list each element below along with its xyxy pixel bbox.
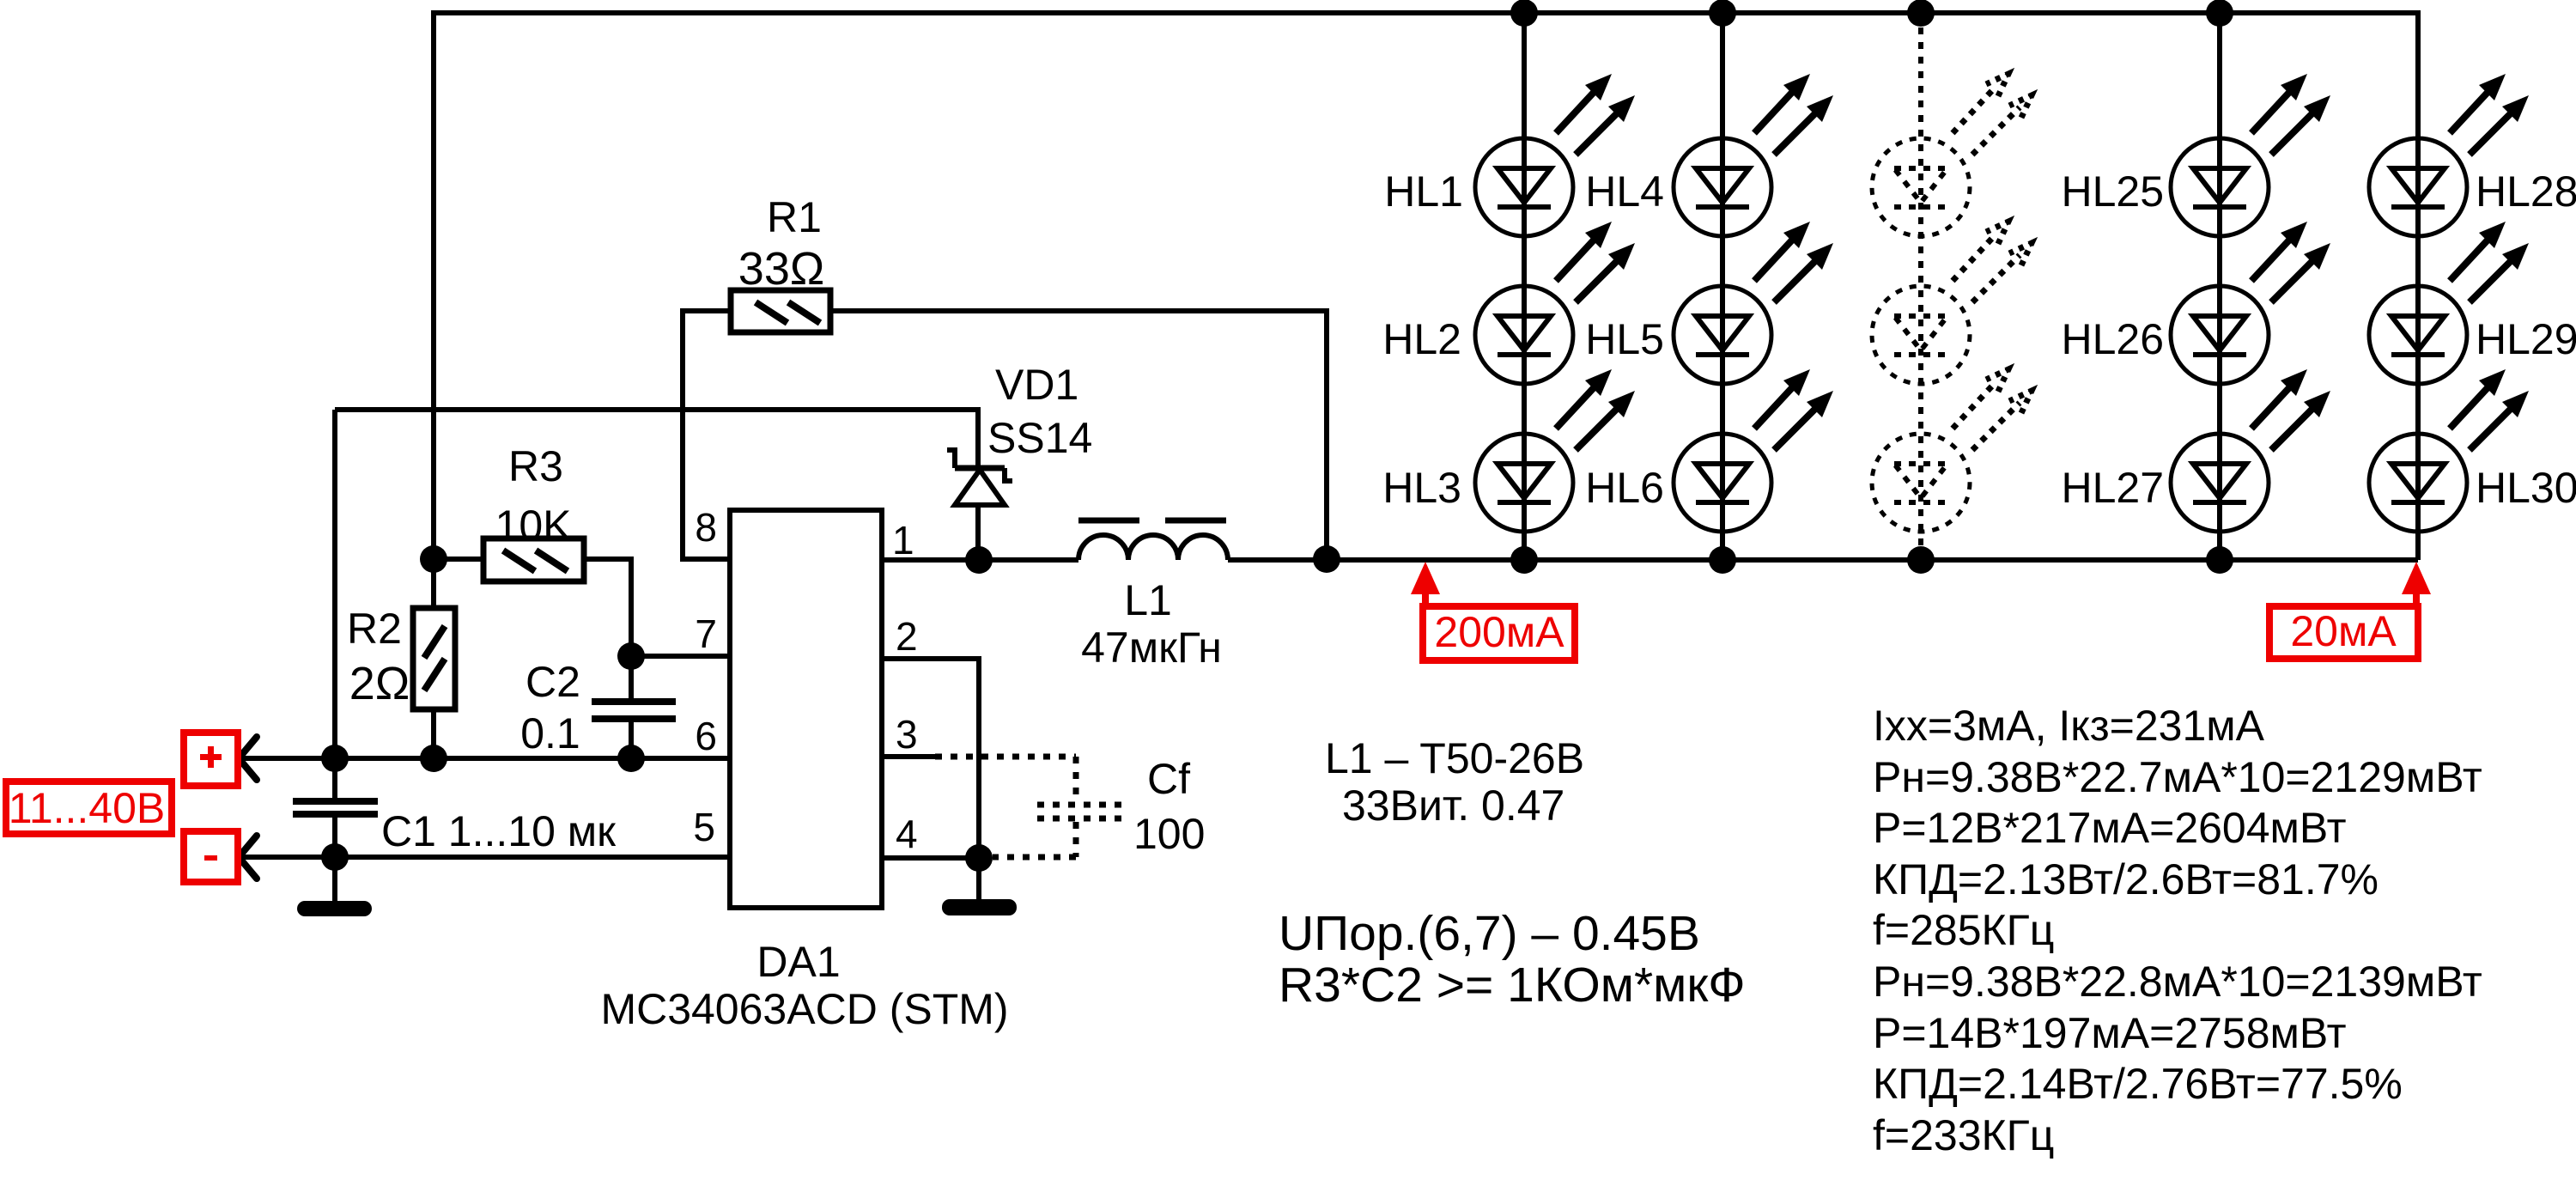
node minus/C1 junction	[321, 843, 349, 871]
resistor R3 10K	[483, 538, 584, 581]
svg-text:R2: R2	[347, 605, 402, 653]
wire pin 3 lead	[882, 754, 935, 759]
wire VD1 cathode feed	[335, 410, 978, 468]
resistor R1 33ohm	[731, 290, 830, 332]
node R1/output junction	[1313, 545, 1340, 573]
wire C1 bottom to ground	[332, 817, 337, 903]
svg-text:f=233КГц: f=233КГц	[1873, 1111, 2054, 1159]
svg-text:VD1: VD1	[995, 361, 1078, 409]
LED dashed at x=2237 y=562	[1872, 369, 2032, 532]
node bottom bus col3	[1907, 546, 1935, 574]
wire top supply bus	[434, 13, 2418, 560]
node top bus col3	[1907, 0, 1935, 27]
svg-text:HL4: HL4	[1585, 167, 1664, 216]
ground (input)	[297, 901, 372, 916]
svg-text:R3*C2 >= 1КОм*мкФ: R3*C2 >= 1КОм*мкФ	[1279, 958, 1746, 1013]
svg-text:L1 – T50-26В: L1 – T50-26В	[1325, 734, 1584, 782]
node R3/R2 junction	[420, 545, 447, 573]
red box 20mA	[2269, 606, 2418, 659]
LED HL30	[2369, 369, 2529, 532]
node top bus col4	[2206, 0, 2233, 27]
inductor L1 47uH	[1078, 520, 1228, 560]
ground (IC)	[942, 899, 1017, 915]
svg-text:L1: L1	[1124, 576, 1172, 624]
svg-text:HL28: HL28	[2476, 167, 2576, 216]
svg-text:2Ω: 2Ω	[349, 658, 410, 709]
svg-text:Ixx=3мА, Iкз=231мА: Ixx=3мА, Iкз=231мА	[1873, 702, 2265, 750]
red box minus terminal	[184, 831, 238, 882]
svg-text:33Вит. 0.47: 33Вит. 0.47	[1342, 782, 1564, 830]
LED HL3	[1475, 369, 1635, 532]
svg-text:100: 100	[1133, 810, 1205, 858]
minus input arrow	[239, 836, 257, 879]
svg-text:HL27: HL27	[2061, 464, 2164, 512]
wire R1 right to output node	[830, 311, 1327, 559]
diode VD1 SS14 (schottky)	[947, 450, 1012, 505]
LED HL1	[1475, 74, 1635, 236]
svg-text:7: 7	[695, 611, 717, 656]
wire LED column 4	[2217, 13, 2222, 560]
wire plus input	[239, 756, 730, 761]
svg-text:MC34063ACD (STM): MC34063ACD (STM)	[600, 985, 1008, 1033]
LED HL28	[2369, 74, 2529, 236]
wire minus input	[239, 855, 730, 860]
LED dashed at x=2237 y=218	[1872, 74, 2032, 236]
wire LED column 3 (dashed)	[1918, 13, 1923, 560]
wire pin 4 lead	[882, 855, 979, 861]
red box 200mA	[1423, 606, 1575, 660]
svg-text:200мА: 200мА	[1434, 608, 1564, 656]
svg-text:Рн=9.38В*22.7мА*10=2129мВт: Рн=9.38В*22.7мА*10=2129мВт	[1873, 753, 2482, 801]
svg-text:КПД=2.14Вт/2.76Вт=77.5%: КПД=2.14Вт/2.76Вт=77.5%	[1873, 1060, 2403, 1108]
wire R2 branch	[431, 559, 436, 758]
svg-text:5: 5	[693, 805, 715, 849]
svg-text:Рн=9.38В*22.8мА*10=2139мВт: Рн=9.38В*22.8мА*10=2139мВт	[1873, 958, 2482, 1006]
svg-text:6: 6	[695, 714, 717, 758]
LED dashed at x=2237 y=390	[1872, 222, 2032, 384]
svg-text:SS14: SS14	[987, 414, 1092, 462]
LED HL6	[1674, 369, 1833, 532]
plus input arrow	[239, 737, 257, 780]
wire R3 right to pin 7	[584, 559, 730, 656]
LED HL26	[2171, 222, 2330, 384]
LED HL4	[1674, 74, 1833, 236]
svg-text:КПД=2.13Вт/2.6Вт=81.7%: КПД=2.13Вт/2.6Вт=81.7%	[1873, 855, 2379, 903]
wire R3 left lead	[434, 557, 483, 562]
capacitor C2	[592, 698, 676, 722]
node top bus col1	[1510, 0, 1538, 27]
svg-text:Р=12В*217мА=2604мВт: Р=12В*217мА=2604мВт	[1873, 804, 2347, 852]
wire pin 4 to ground	[976, 858, 981, 902]
node C2 bottom junction	[617, 745, 645, 772]
svg-text:HL30: HL30	[2476, 464, 2576, 512]
svg-text:4: 4	[896, 812, 918, 856]
LED HL29	[2369, 222, 2529, 384]
svg-text:0.1: 0.1	[520, 709, 580, 757]
svg-text:HL3: HL3	[1382, 464, 1461, 512]
node bottom bus col4	[2206, 546, 2233, 574]
svg-text:Cf: Cf	[1147, 755, 1190, 803]
LED HL2	[1475, 222, 1635, 384]
svg-text:R3: R3	[508, 442, 563, 490]
svg-text:HL25: HL25	[2061, 167, 2164, 216]
red current arrow 200mA	[1411, 562, 1440, 610]
red box 11...40V input voltage	[6, 782, 172, 834]
red box plus terminal	[184, 733, 238, 786]
wire VD1 anode lead	[975, 505, 981, 560]
svg-text:1: 1	[892, 518, 914, 563]
wire pin 8 lead	[683, 311, 731, 559]
svg-text:C1 1...10 мк: C1 1...10 мк	[381, 807, 617, 855]
svg-text:UПор.(6,7) – 0.45В: UПор.(6,7) – 0.45В	[1279, 906, 1700, 961]
svg-text:33Ω: 33Ω	[738, 243, 824, 295]
svg-text:11...40В: 11...40В	[9, 784, 166, 832]
node VD1 anode junction	[965, 546, 993, 574]
svg-text:R1: R1	[767, 193, 822, 241]
wire pin 2 to pin 4	[882, 659, 979, 858]
node Vin/C1 junction	[321, 745, 349, 772]
wire LED bottom bus	[1228, 557, 2418, 563]
svg-text:10K: 10K	[495, 502, 572, 550]
svg-text:3: 3	[896, 712, 918, 757]
svg-text:HL29: HL29	[2476, 315, 2576, 363]
node top bus col2	[1709, 0, 1736, 27]
svg-text:HL26: HL26	[2061, 315, 2164, 363]
capacitor Cf (dashed feed-forward)	[935, 757, 1122, 857]
svg-text:HL6: HL6	[1585, 464, 1664, 512]
op-amp U1 / IC DA1 MC34063ACD body	[730, 510, 882, 908]
resistor R2 2ohm (vertical)	[413, 608, 455, 709]
svg-text:20мА: 20мА	[2290, 607, 2397, 655]
svg-text:HL1: HL1	[1384, 167, 1463, 216]
node pin4/ground junction	[965, 844, 993, 872]
wire pin 1 to L1	[882, 557, 1078, 563]
svg-text:f=285КГц: f=285КГц	[1873, 906, 2054, 954]
red current arrow 20mA	[2402, 562, 2431, 610]
LED HL5	[1674, 222, 1833, 384]
svg-text:Р=14В*197мА=2758мВт: Р=14В*197мА=2758мВт	[1873, 1009, 2347, 1057]
LED HL27	[2171, 369, 2330, 532]
svg-text:2: 2	[896, 614, 918, 659]
svg-text:HL2: HL2	[1382, 315, 1461, 363]
svg-text:47мкГн: 47мкГн	[1081, 623, 1222, 672]
LED HL25	[2171, 74, 2330, 236]
wire LED column 2	[1720, 13, 1725, 560]
svg-text:HL5: HL5	[1585, 315, 1664, 363]
svg-text:DA1: DA1	[756, 938, 840, 986]
node bottom bus col1	[1510, 546, 1538, 574]
node pin7/C2 junction	[617, 642, 645, 670]
svg-text:8: 8	[695, 505, 717, 550]
wire C2 branch	[629, 656, 634, 701]
svg-text:C2: C2	[526, 658, 580, 706]
wire LED column 1	[1522, 13, 1527, 560]
node bottom bus col2	[1709, 546, 1736, 574]
node R2 bottom junction	[420, 745, 447, 772]
wire left input vertical	[332, 410, 337, 798]
capacitor C1	[293, 798, 378, 818]
